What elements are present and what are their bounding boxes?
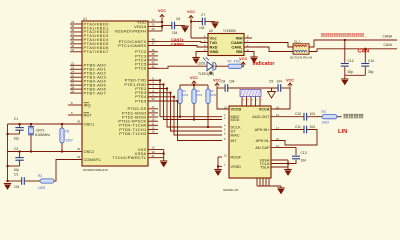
svg-text:30p: 30p [348, 70, 354, 74]
U2 pin RxD [204, 43, 218, 49]
ground rail left of crystal [8, 124, 83, 182]
U1 pin PTA3/KBD3 (pin 37) [70, 32, 109, 38]
wire CANH output [309, 35, 397, 47]
svg-text:B2Y35143-5PLH-B: B2Y35143-5PLH-B [290, 56, 312, 60]
U4 top pin stub [256, 97, 259, 107]
power VCC [158, 9, 166, 20]
U4 pin AUD-OUT [252, 113, 279, 119]
svg-text:TLE6250: TLE6250 [223, 29, 236, 33]
svg-text:APH IN-: APH IN- [256, 139, 271, 143]
U1 pin OSC2 (pin 42) [77, 147, 95, 154]
U4 pin ST [224, 127, 236, 133]
svg-text:): ) [213, 72, 214, 76]
U1 pin CGMXFC (pin 44) [77, 155, 101, 162]
svg-text:4701: 4701 [196, 93, 203, 97]
U2 pin RM [236, 48, 249, 54]
wire U1 PTE to U4 [148, 79, 222, 116]
capacitor C14 30p [361, 48, 374, 76]
wire APH IN+ [271, 129, 304, 131]
U1 pin T1CLK/PWRCTL (pin 21) [112, 154, 158, 160]
U1 pin PTB3/AD3 (pin 25) [70, 73, 107, 79]
svg-text:VDDAD/VREFH: VDDAD/VREFH [115, 28, 147, 33]
svg-text:,: , [366, 34, 367, 38]
capacitor C11 104 [295, 125, 315, 133]
capacitor C3 101 [7, 173, 41, 189]
wire U1 VSS to ground [158, 150, 165, 161]
power VCC [213, 78, 221, 88]
svg-text:104: 104 [229, 80, 235, 84]
U1 pin VSS (pin 13) [138, 146, 158, 152]
U4 pin APH IN- [256, 137, 280, 143]
ground [284, 170, 291, 176]
svg-text:44: 44 [77, 155, 81, 159]
U1 pin PTD6-T1CH2 (pin 10) [119, 130, 158, 136]
U4 pin MDO [224, 113, 239, 119]
U2 pin Vcc [204, 34, 217, 40]
svg-text:Indicator: Indicator [253, 61, 275, 67]
svg-text:VCC: VCC [239, 57, 247, 61]
svg-text:104: 104 [277, 80, 283, 84]
svg-text:10: 10 [151, 130, 155, 134]
svg-text:LED1: LED1 [198, 62, 206, 66]
svg-text:C12: C12 [348, 59, 354, 63]
capacitor C1 10p [7, 117, 24, 141]
U4 pin VCCA [259, 105, 280, 111]
svg-text:C3: C3 [14, 173, 18, 177]
svg-text:101: 101 [14, 185, 20, 189]
svg-text:CAN: CAN [358, 48, 370, 54]
U4 top pin stub [247, 97, 250, 107]
resistor R4 4701 [178, 85, 189, 118]
svg-text:VCC: VCC [190, 76, 198, 80]
svg-text:MOD: MOD [231, 118, 240, 122]
svg-text:28: 28 [151, 27, 155, 31]
svg-text:1003: 1003 [322, 120, 330, 124]
wire U2 RM to ground [244, 52, 254, 57]
wire AN CAP [271, 148, 296, 156]
wire AUD-OUT [271, 116, 304, 118]
svg-text:U2: U2 [209, 29, 213, 33]
U1 pin PTA4/KBD4 (pin 38) [70, 36, 109, 42]
svg-text:PTD6-T1CH2: PTD6-T1CH2 [119, 131, 147, 136]
svg-text:APH IN+: APH IN+ [255, 128, 271, 132]
label LIN [338, 129, 347, 135]
wire U1 PTE to U4 [148, 83, 222, 119]
wire PTC6 to LED [148, 66, 207, 68]
U4 pin MOD [224, 116, 240, 122]
U2 pin CANL [231, 43, 249, 49]
U1 pin PTA1/KBD1 (pin 35) [70, 24, 109, 30]
svg-text:C8: C8 [221, 80, 225, 84]
wire R3 output [337, 116, 342, 118]
wire U1 PTE to U4 [148, 88, 222, 128]
resistor R5 4701 [192, 85, 203, 121]
ground [211, 22, 218, 28]
svg-text:10p: 10p [14, 136, 20, 140]
U1 pin VDDA (pin 20) [134, 23, 158, 29]
U1 pin PTA0/KBD0 (pin 34) [70, 20, 109, 26]
U1 pin VSSA (pin 19) [135, 150, 158, 156]
svg-text:VCCD: VCCD [231, 107, 242, 111]
svg-text:C14: C14 [368, 59, 374, 63]
svg-text:AN CAP: AN CAP [255, 146, 270, 150]
svg-text:AUD-OUT: AUD-OUT [252, 115, 270, 119]
ground [181, 26, 188, 32]
U4 pin TCLA [260, 162, 270, 166]
svg-text:OSC1: OSC1 [84, 121, 96, 126]
svg-text:104: 104 [199, 26, 205, 30]
U1 pin PTA6/KBD6 (pin 40) [70, 44, 109, 50]
ground [277, 188, 284, 194]
U1 pin PTB4/AD4 (pin 26) [70, 77, 107, 83]
svg-text:C13: C13 [301, 151, 307, 155]
svg-text:TSLA: TSLA [260, 165, 270, 169]
label CAN [358, 48, 370, 54]
svg-text:PTC1/CANRX: PTC1/CANRX [118, 43, 146, 48]
power VCC [187, 10, 195, 21]
U1 pin RST (pin 6) [68, 111, 92, 117]
U1 pin OSC1 (pin 43) [77, 120, 95, 127]
ground [214, 170, 221, 176]
svg-text:RM: RM [236, 49, 243, 54]
wire U4 VSSA TCLA TSLA to ground [271, 160, 289, 169]
common-mode choke CLJ B2Y35143-5PLH-B [290, 40, 312, 60]
U4 pin APH IN+ [255, 126, 280, 132]
wire LED to R7 [215, 65, 229, 67]
U1 pin PTD3-SPSCK (pin 16) [118, 117, 158, 123]
U1 pin PTB6/AD6 (pin 28) [70, 85, 107, 91]
capacitor C7 104 [191, 13, 215, 30]
capacitor C9 104 [269, 80, 282, 92]
svg-text:CGMXFC: CGMXFC [84, 157, 101, 162]
wire CANL output [309, 43, 397, 52]
U1 pin PTB0/AD0 (pin 22) [70, 62, 107, 68]
svg-text:C10: C10 [295, 112, 301, 116]
U2 pin CANH [231, 39, 249, 45]
svg-text:VCC: VCC [158, 9, 166, 13]
svg-text:21: 21 [151, 154, 155, 158]
wire VCC to U4 VCCA [271, 88, 290, 109]
svg-text:ROSF: ROSF [231, 155, 242, 159]
capacitor C10 104 [295, 112, 315, 120]
svg-text:104: 104 [310, 125, 316, 129]
U1 pin PTB2/AD2 (pin 24) [70, 69, 107, 75]
svg-text:VCC: VCC [187, 10, 195, 14]
svg-text:C6: C6 [176, 17, 180, 21]
U4 top pin stub [251, 97, 254, 107]
microcontroller U1 MC68HC908GZ16 body [82, 17, 148, 172]
U1 pin PTB5/AD5 (pin 27) [70, 81, 107, 87]
U4 pin VCCD [224, 105, 242, 111]
U4 pin INT [224, 137, 237, 143]
resistor R3 1003 [322, 110, 338, 125]
U4 pin TSLA [260, 165, 270, 169]
svg-text:SD9601-DT: SD9601-DT [223, 188, 239, 192]
U1 pin PTD0-SS (pin 17) [128, 105, 159, 111]
wire U1 PTE to U4 [148, 92, 222, 131]
svg-text:R1: R1 [66, 129, 70, 133]
wire C11 feedback to APH IN- [271, 130, 317, 146]
svg-text:OSC2: OSC2 [84, 149, 96, 154]
U1 pin VDD (pin 14) [137, 18, 158, 24]
resistor network above U4 [240, 90, 261, 97]
U4 top pin stub [260, 97, 263, 107]
U1 pin PTC4 (pin 44) [135, 56, 158, 62]
wire pull-up VCC bus [180, 84, 208, 86]
wire U1 PTE to U4 [148, 100, 222, 141]
wire VDD rail [158, 19, 163, 32]
U1 pin IRQ (pin 8) [68, 101, 91, 107]
U4 bottom pin stub [256, 178, 258, 186]
wire U4 supply bus [217, 87, 290, 89]
svg-text:LIN: LIN [338, 129, 347, 135]
U1 pin PTE0-TXD (pin 5) [125, 77, 158, 83]
svg-text:41: 41 [71, 48, 75, 52]
svg-text:PTA7/KBD7: PTA7/KBD7 [84, 49, 110, 54]
wire CGMXFC net [54, 160, 82, 182]
U1 pin PTE1-RXD (pin 4) [124, 81, 158, 87]
svg-text:10p: 10p [14, 168, 20, 172]
U1 pin VDDAD/VREFH (pin 28) [115, 27, 158, 33]
svg-text:R3: R3 [322, 110, 326, 114]
wire U2 Vcc net [190, 21, 208, 39]
wire CANTx net [148, 38, 208, 43]
svg-text:104: 104 [172, 31, 178, 35]
U1 pin PTE5 (pin 52) [135, 97, 158, 103]
svg-text:4701: 4701 [210, 93, 217, 97]
U4 bottom pin stub [268, 178, 270, 186]
wire R7 to VCC [242, 62, 243, 66]
svg-text:VSSD: VSSD [231, 165, 242, 169]
svg-text:29: 29 [71, 89, 75, 93]
power VCC [190, 76, 198, 87]
svg-text:C11: C11 [295, 125, 301, 129]
ground triangle on U4 bus [268, 88, 276, 98]
U2 pin INH [236, 34, 249, 40]
svg-text:INT: INT [231, 139, 238, 143]
U4 bottom pin stub [262, 178, 264, 186]
svg-text:GND: GND [210, 49, 219, 54]
svg-text:R2: R2 [38, 174, 42, 178]
CAN transceiver U2 TLE6250 body [208, 29, 244, 56]
svg-text:R7: R7 [228, 60, 232, 64]
svg-text:1002: 1002 [38, 186, 46, 190]
wire U4 ROSF VSSD to ground [217, 157, 222, 169]
svg-text:VCC: VCC [286, 78, 294, 82]
capacitor C6 104 [162, 17, 185, 35]
svg-text:CLJ: CLJ [294, 40, 300, 44]
wire CANH from U2 to choke [244, 43, 293, 48]
svg-text:CANTx: CANTx [171, 38, 185, 42]
svg-text:CRY1: CRY1 [36, 128, 45, 132]
U1 pin PTD1-MISO (pin 18) [122, 109, 158, 115]
label synth output [344, 114, 364, 118]
capacitor C12 30p [341, 39, 354, 75]
U1 pin PTA2/KBD2 (pin 36) [70, 28, 109, 34]
svg-text:PTC6: PTC6 [135, 66, 147, 71]
wire CANRx net [148, 43, 208, 47]
U1 pin PTB7/AD7 (pin 29) [70, 89, 107, 95]
label Indicator [253, 61, 275, 67]
svg-text:1007: 1007 [66, 139, 74, 143]
U2 INH stub [244, 37, 252, 39]
wire U2 GND to ground [196, 52, 208, 58]
ground [341, 79, 348, 85]
ground [4, 184, 11, 190]
svg-text:14: 14 [151, 18, 155, 22]
ground [250, 57, 257, 63]
capacitor C13 104 [292, 151, 307, 163]
power VCC [286, 78, 294, 88]
U4 pin R/AC [224, 131, 240, 137]
U4 bottom pin stub [259, 178, 261, 186]
U1 pin PTD4-T1CH0 (pin 11) [119, 122, 158, 128]
wire C10 to R3 [307, 116, 322, 118]
wire C13 to ground net [288, 160, 296, 164]
svg-text:20: 20 [151, 23, 155, 27]
U1 pin PTE4 (pin 1) [135, 93, 158, 99]
wire caps common to ground [345, 75, 366, 78]
capacitor C8 104 [221, 80, 235, 92]
U4 bottom pin stub [265, 178, 267, 186]
U1 pin PTD2-MOSI (pin 15) [122, 113, 158, 119]
resistor R6 4701 [206, 85, 217, 128]
svg-text:R/AC: R/AC [231, 133, 240, 137]
U1 pin PTC5 (pin 43) [135, 60, 158, 66]
power VCC [239, 57, 247, 68]
U1 pin PTE3 (pin 2) [135, 89, 158, 95]
svg-text:CANRx: CANRx [171, 43, 185, 47]
capacitor C2 10p [7, 147, 24, 172]
svg-text:43: 43 [77, 120, 81, 124]
U4 top pin stub [242, 97, 245, 107]
U1 pin PTC1/CANRX (pin 47) [118, 42, 158, 48]
resistor R7 4701 [228, 60, 243, 69]
U1 pin PTA5/KBD5 (pin 39) [70, 40, 109, 46]
ground [160, 161, 167, 167]
U2 pin GND [204, 48, 219, 54]
svg-text:104: 104 [301, 159, 307, 163]
U1 pin PTE2 (pin 3) [135, 85, 158, 91]
svg-text:C7: C7 [201, 13, 205, 17]
U1 pin PTC3 (pin 45) [135, 52, 158, 58]
svg-text:C9: C9 [269, 80, 273, 84]
speech chip U4 body [223, 106, 271, 192]
svg-text:MC68HC908GZ16: MC68HC908GZ16 [83, 168, 108, 172]
svg-text:CANH: CANH [383, 35, 393, 39]
wire U4 bottom pins to ground [257, 186, 281, 188]
svg-text:42: 42 [77, 147, 81, 151]
U1 pin PTC6 (pin 42) [135, 65, 158, 71]
LED LED1 TLED1(red) [198, 57, 217, 76]
svg-text:30p: 30p [368, 70, 374, 74]
svg-text:4701: 4701 [182, 93, 189, 97]
svg-text:PTB7-AD7: PTB7-AD7 [84, 90, 107, 95]
U1 pin PTD5-T1CH1 (pin 12) [119, 126, 158, 132]
svg-text:PTE5: PTE5 [135, 98, 147, 103]
crystal CRY1 8.000MHz [28, 123, 50, 153]
svg-text:C1: C1 [14, 117, 18, 121]
wire U1 PTE to U4 [148, 96, 222, 135]
svg-text:VCCA: VCCA [259, 107, 270, 111]
U4 pin AN CAP [255, 144, 279, 150]
U2 pin TxD [204, 39, 217, 45]
svg-text:TLED1(: TLED1( [198, 72, 210, 76]
resistor R2 1002 [38, 174, 54, 190]
svg-text:104: 104 [310, 112, 316, 116]
ground [192, 58, 199, 64]
U4 pin ROSF [224, 153, 242, 159]
svg-text:8.000MHz: 8.000MHz [35, 133, 50, 137]
wire CANL from U2 to choke [244, 47, 293, 52]
svg-text:C2: C2 [14, 147, 18, 151]
U4 pin VSSA [259, 158, 270, 162]
wire VCC to U4 VCCD [217, 88, 229, 109]
svg-text:CANL: CANL [384, 43, 393, 47]
resistor R1 1007 [60, 123, 73, 153]
U1 pin PTB1/AD1 (pin 23) [70, 65, 107, 71]
U4 pin VSSD [224, 163, 241, 169]
svg-text:T1CLK/PWRCTL: T1CLK/PWRCTL [112, 155, 147, 160]
U4 pin DCLK [224, 123, 241, 129]
label CAN bus note (red) [321, 33, 367, 38]
U1 pin PTC0/CANTX (pin 48) [119, 38, 158, 44]
U1 pin PTA7/KBD7 (pin 41) [70, 48, 109, 54]
U1 pin PTC2 (pin 46) [135, 48, 158, 54]
